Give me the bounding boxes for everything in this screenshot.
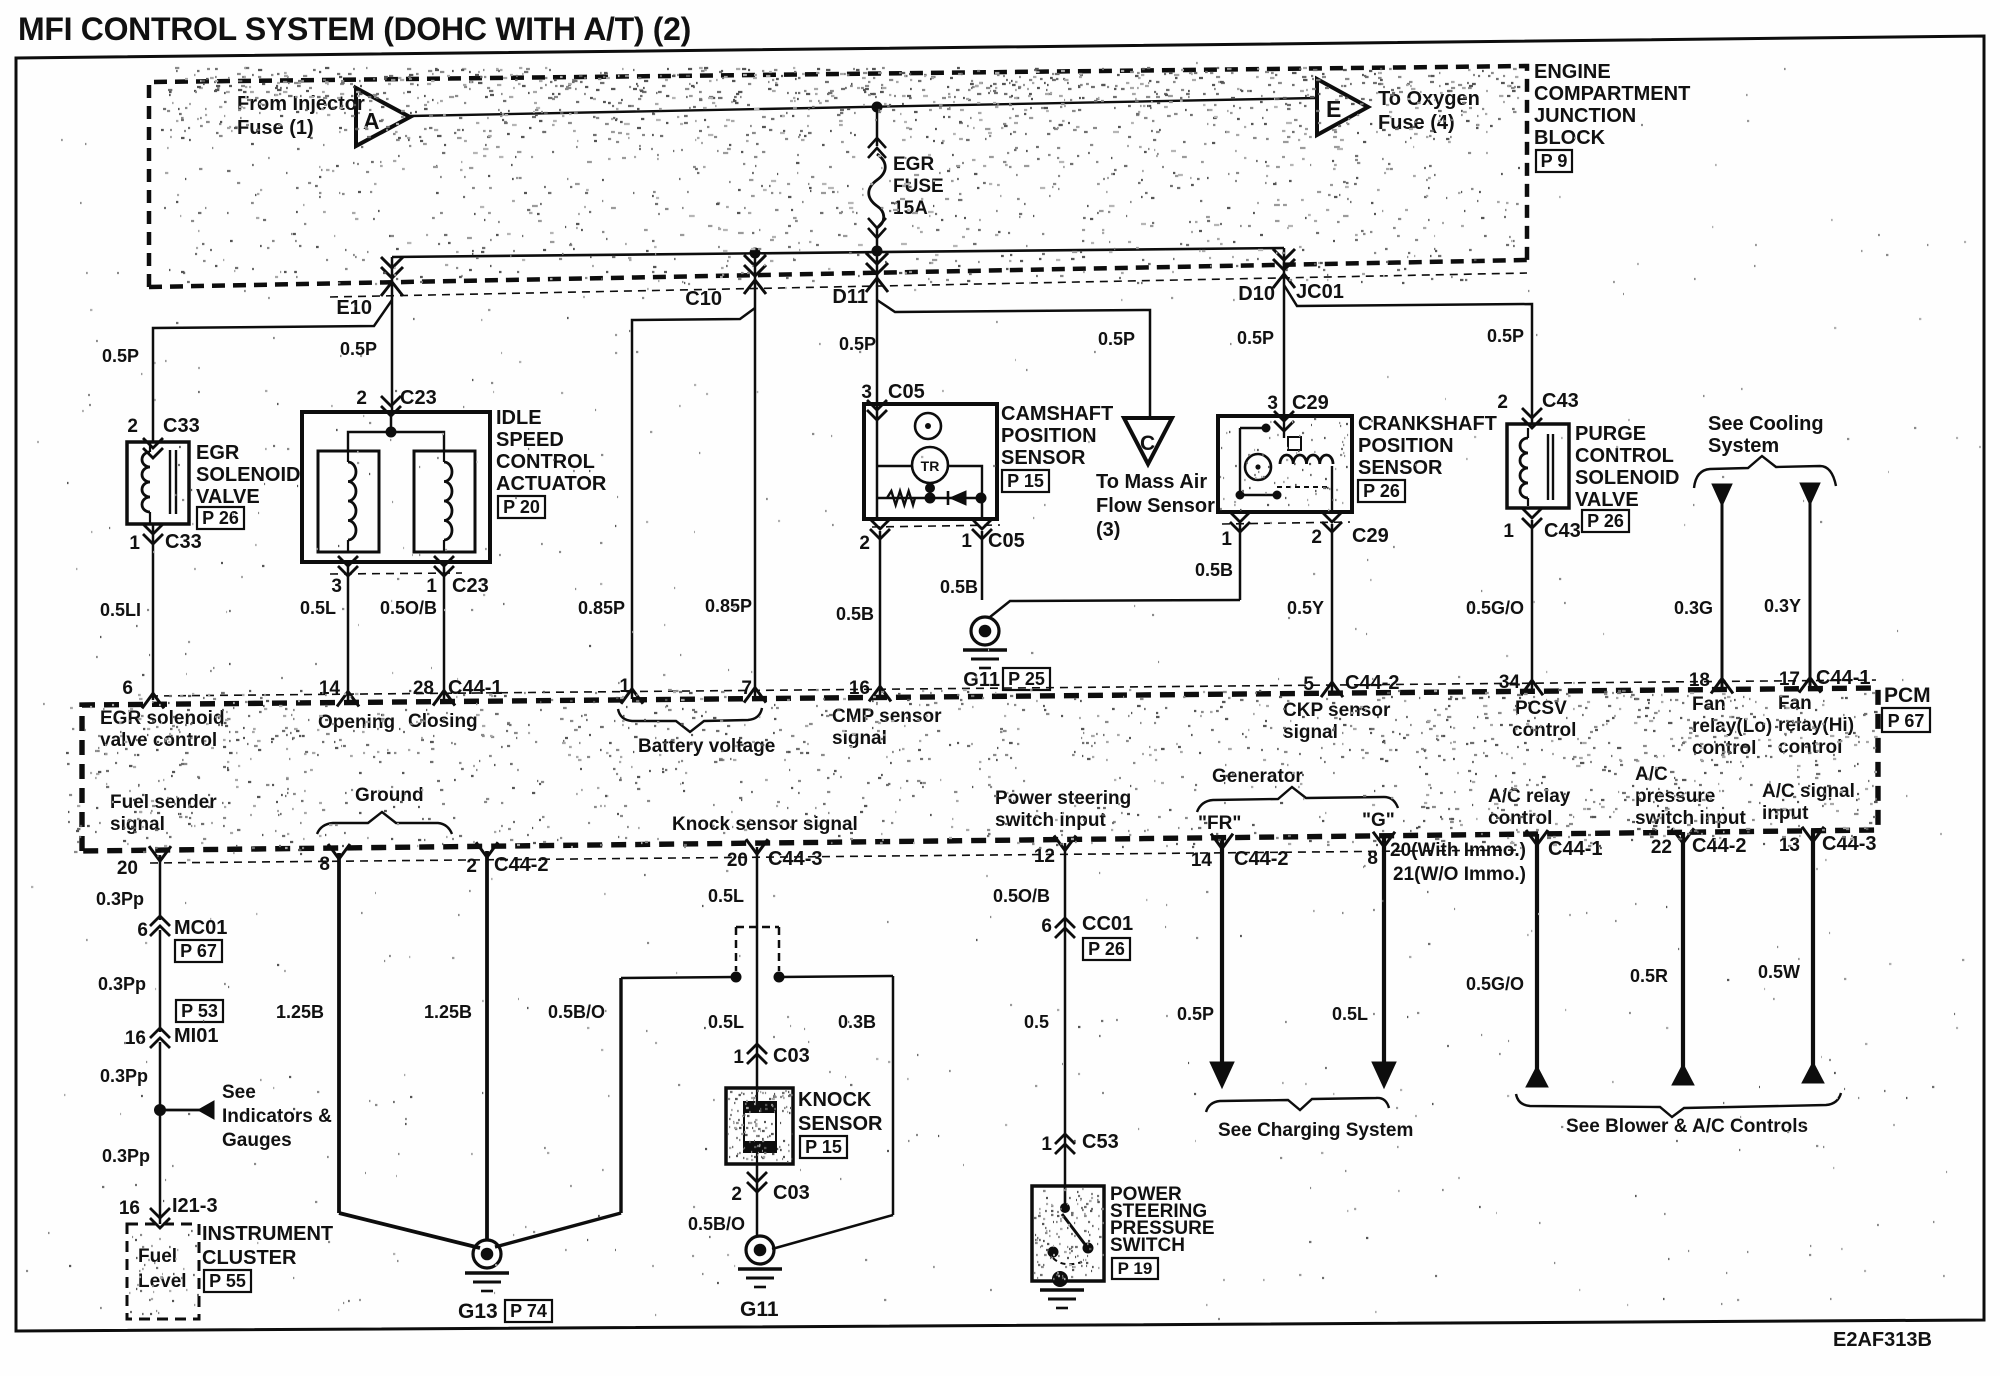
svg-text:0.5P: 0.5P bbox=[1487, 326, 1524, 346]
svg-text:Fan: Fan bbox=[1692, 694, 1726, 715]
svg-text:0.5B: 0.5B bbox=[1195, 560, 1233, 580]
svg-text:G13: G13 bbox=[458, 1300, 498, 1323]
svg-text:P 74: P 74 bbox=[510, 1301, 547, 1321]
svg-text:0.3Y: 0.3Y bbox=[1764, 596, 1801, 616]
svg-text:P 9: P 9 bbox=[1541, 151, 1568, 171]
svg-text:See Blower & A/C Controls: See Blower & A/C Controls bbox=[1566, 1116, 1808, 1137]
svg-text:input: input bbox=[1762, 803, 1809, 824]
svg-text:D11: D11 bbox=[832, 286, 868, 308]
svg-text:C44-3: C44-3 bbox=[1822, 833, 1876, 855]
svg-text:1: 1 bbox=[129, 533, 140, 554]
svg-text:Battery voltage: Battery voltage bbox=[638, 736, 775, 757]
svg-text:PCM: PCM bbox=[1884, 684, 1931, 707]
svg-text:CLUSTER: CLUSTER bbox=[202, 1247, 297, 1269]
svg-text:3: 3 bbox=[331, 576, 342, 597]
svg-text:0.5B/O: 0.5B/O bbox=[688, 1214, 745, 1234]
svg-text:2: 2 bbox=[1311, 527, 1322, 548]
svg-text:1: 1 bbox=[1503, 521, 1514, 542]
svg-text:12: 12 bbox=[1034, 846, 1055, 867]
svg-text:FUSE: FUSE bbox=[893, 176, 944, 197]
svg-text:P 26: P 26 bbox=[202, 508, 239, 528]
svg-text:valve control: valve control bbox=[100, 730, 217, 751]
svg-text:See Charging System: See Charging System bbox=[1218, 1120, 1413, 1141]
svg-text:P 67: P 67 bbox=[1888, 711, 1925, 731]
svg-text:20: 20 bbox=[117, 858, 138, 879]
svg-text:P 26: P 26 bbox=[1363, 481, 1400, 501]
svg-text:COMPARTMENT: COMPARTMENT bbox=[1534, 83, 1690, 105]
svg-text:"G": "G" bbox=[1362, 810, 1395, 831]
svg-text:POSITION: POSITION bbox=[1358, 435, 1454, 457]
svg-text:Knock sensor signal: Knock sensor signal bbox=[672, 814, 858, 835]
svg-text:1: 1 bbox=[1221, 529, 1232, 550]
svg-text:SPEED: SPEED bbox=[496, 429, 564, 451]
svg-text:1.25B: 1.25B bbox=[424, 1002, 472, 1022]
svg-text:POSITION: POSITION bbox=[1001, 425, 1097, 447]
svg-text:1: 1 bbox=[961, 531, 972, 552]
svg-text:0.5L: 0.5L bbox=[300, 598, 336, 618]
svg-text:0.5W: 0.5W bbox=[1758, 962, 1800, 982]
svg-text:0.5L: 0.5L bbox=[708, 1012, 744, 1032]
svg-text:PURGE: PURGE bbox=[1575, 423, 1646, 445]
svg-text:See: See bbox=[222, 1082, 256, 1103]
svg-text:21(W/O Immo.): 21(W/O Immo.) bbox=[1393, 864, 1526, 885]
svg-text:ACTUATOR: ACTUATOR bbox=[496, 473, 607, 495]
svg-text:2: 2 bbox=[859, 533, 870, 554]
svg-text:INSTRUMENT: INSTRUMENT bbox=[202, 1223, 333, 1245]
svg-text:0.85P: 0.85P bbox=[705, 596, 752, 616]
svg-text:C03: C03 bbox=[773, 1182, 810, 1204]
svg-text:C29: C29 bbox=[1292, 392, 1329, 414]
svg-text:C05: C05 bbox=[988, 530, 1025, 552]
svg-text:0.5Y: 0.5Y bbox=[1287, 598, 1324, 618]
svg-text:0.5L: 0.5L bbox=[1332, 1004, 1368, 1024]
svg-text:0.5P: 0.5P bbox=[340, 339, 377, 359]
svg-text:Power steering: Power steering bbox=[995, 788, 1131, 809]
svg-text:P 26: P 26 bbox=[1587, 511, 1624, 531]
svg-text:0.85P: 0.85P bbox=[578, 598, 625, 618]
svg-text:A/C relay: A/C relay bbox=[1488, 786, 1571, 807]
svg-text:To Mass Air: To Mass Air bbox=[1096, 471, 1207, 493]
svg-text:BLOCK: BLOCK bbox=[1534, 127, 1606, 149]
svg-text:C44-3: C44-3 bbox=[768, 848, 822, 870]
svg-text:2: 2 bbox=[1497, 392, 1508, 413]
svg-text:0.3Pp: 0.3Pp bbox=[96, 889, 144, 909]
svg-text:KNOCK: KNOCK bbox=[798, 1089, 872, 1111]
svg-text:CC01: CC01 bbox=[1082, 913, 1133, 935]
svg-text:3: 3 bbox=[861, 382, 872, 403]
svg-text:0.5LI: 0.5LI bbox=[100, 600, 141, 620]
svg-text:16: 16 bbox=[125, 1028, 146, 1049]
svg-text:signal: signal bbox=[1283, 722, 1338, 743]
svg-text:0.3Pp: 0.3Pp bbox=[102, 1146, 150, 1166]
svg-text:E: E bbox=[1326, 96, 1341, 122]
svg-text:2: 2 bbox=[466, 856, 477, 877]
svg-text:TR: TR bbox=[921, 458, 940, 474]
svg-text:E10: E10 bbox=[336, 297, 372, 319]
svg-text:16: 16 bbox=[119, 1198, 140, 1219]
svg-text:SOLENOID: SOLENOID bbox=[196, 464, 300, 486]
svg-text:0.5P: 0.5P bbox=[1237, 328, 1274, 348]
svg-text:MFI CONTROL SYSTEM (DOHC WITH: MFI CONTROL SYSTEM (DOHC WITH A/T) (2) bbox=[18, 11, 691, 47]
svg-text:P 20: P 20 bbox=[503, 497, 540, 517]
svg-text:switch input: switch input bbox=[995, 810, 1107, 831]
svg-text:C33: C33 bbox=[165, 531, 202, 553]
svg-text:control: control bbox=[1778, 737, 1842, 758]
svg-text:P 67: P 67 bbox=[180, 941, 217, 961]
svg-text:P 26: P 26 bbox=[1088, 939, 1125, 959]
svg-text:E2AF313B: E2AF313B bbox=[1833, 1329, 1932, 1351]
svg-text:C44-1: C44-1 bbox=[1548, 838, 1602, 860]
svg-text:PCSV: PCSV bbox=[1515, 698, 1567, 719]
svg-text:I21-3: I21-3 bbox=[172, 1195, 218, 1217]
svg-text:EGR: EGR bbox=[196, 442, 240, 464]
svg-text:See Cooling: See Cooling bbox=[1708, 413, 1824, 435]
svg-text:0.5G/O: 0.5G/O bbox=[1466, 974, 1524, 994]
svg-text:MI01: MI01 bbox=[174, 1025, 218, 1047]
svg-text:Fuel sender: Fuel sender bbox=[110, 792, 217, 813]
svg-text:1: 1 bbox=[1041, 1134, 1052, 1155]
svg-text:CONTROL: CONTROL bbox=[1575, 445, 1674, 467]
svg-text:D10: D10 bbox=[1238, 283, 1275, 305]
svg-text:SENSOR: SENSOR bbox=[1358, 457, 1443, 479]
svg-text:P 53: P 53 bbox=[181, 1001, 218, 1021]
svg-text:0.5B: 0.5B bbox=[836, 604, 874, 624]
svg-text:28: 28 bbox=[413, 678, 434, 699]
svg-text:C29: C29 bbox=[1352, 525, 1389, 547]
svg-text:0.5B/O: 0.5B/O bbox=[548, 1002, 605, 1022]
svg-text:SOLENOID: SOLENOID bbox=[1575, 467, 1679, 489]
svg-text:0.5: 0.5 bbox=[1024, 1012, 1049, 1032]
svg-text:0.3Pp: 0.3Pp bbox=[98, 974, 146, 994]
svg-text:20(With Immo.): 20(With Immo.) bbox=[1390, 840, 1526, 861]
svg-text:SENSOR: SENSOR bbox=[1001, 447, 1086, 469]
svg-text:Fuel: Fuel bbox=[138, 1246, 177, 1267]
svg-text:0.5P: 0.5P bbox=[1098, 329, 1135, 349]
svg-text:0.5P: 0.5P bbox=[839, 334, 876, 354]
svg-text:C53: C53 bbox=[1082, 1131, 1119, 1153]
svg-text:1: 1 bbox=[426, 576, 437, 597]
svg-text:CONTROL: CONTROL bbox=[496, 451, 595, 473]
svg-text:EGR solenoid: EGR solenoid bbox=[100, 708, 225, 729]
svg-text:JC01: JC01 bbox=[1296, 281, 1344, 303]
svg-text:6: 6 bbox=[1041, 916, 1052, 937]
svg-text:relay(Hi): relay(Hi) bbox=[1778, 715, 1854, 736]
svg-text:C44-2: C44-2 bbox=[1234, 848, 1288, 870]
svg-text:2: 2 bbox=[731, 1184, 742, 1205]
svg-text:C23: C23 bbox=[452, 575, 489, 597]
svg-text:P 25: P 25 bbox=[1008, 669, 1045, 689]
svg-text:C10: C10 bbox=[685, 288, 722, 310]
svg-text:System: System bbox=[1708, 435, 1779, 457]
svg-text:2: 2 bbox=[127, 416, 138, 437]
svg-text:0.5G/O: 0.5G/O bbox=[1466, 598, 1524, 618]
svg-text:Flow Sensor: Flow Sensor bbox=[1096, 495, 1215, 517]
svg-text:20: 20 bbox=[727, 850, 748, 871]
svg-text:6: 6 bbox=[137, 920, 148, 941]
svg-text:P 55: P 55 bbox=[209, 1271, 246, 1291]
svg-text:A/C: A/C bbox=[1635, 764, 1668, 785]
svg-text:0.3Pp: 0.3Pp bbox=[100, 1066, 148, 1086]
svg-text:IDLE: IDLE bbox=[496, 407, 542, 429]
svg-text:C03: C03 bbox=[773, 1045, 810, 1067]
svg-text:C05: C05 bbox=[888, 381, 925, 403]
svg-text:8: 8 bbox=[319, 854, 330, 875]
svg-text:C: C bbox=[1140, 432, 1155, 455]
svg-text:Ground: Ground bbox=[355, 785, 424, 806]
svg-text:VALVE: VALVE bbox=[196, 486, 260, 508]
svg-text:0.3G: 0.3G bbox=[1674, 598, 1713, 618]
svg-text:CAMSHAFT: CAMSHAFT bbox=[1001, 403, 1113, 425]
svg-text:3: 3 bbox=[1267, 393, 1278, 414]
svg-text:14: 14 bbox=[1191, 850, 1213, 871]
svg-text:8: 8 bbox=[1367, 848, 1378, 869]
svg-text:G11: G11 bbox=[740, 1298, 779, 1321]
svg-text:relay(Lo): relay(Lo) bbox=[1692, 716, 1772, 737]
svg-text:Fuse (1): Fuse (1) bbox=[237, 117, 314, 139]
svg-text:22: 22 bbox=[1651, 837, 1672, 858]
svg-text:Gauges: Gauges bbox=[222, 1130, 292, 1151]
svg-text:Generator: Generator bbox=[1212, 766, 1303, 787]
svg-text:1.25B: 1.25B bbox=[276, 1002, 324, 1022]
svg-text:(3): (3) bbox=[1096, 519, 1120, 541]
svg-text:0.5B: 0.5B bbox=[940, 577, 978, 597]
svg-text:SENSOR: SENSOR bbox=[798, 1113, 883, 1135]
svg-text:signal: signal bbox=[110, 814, 165, 835]
svg-text:ENGINE: ENGINE bbox=[1534, 61, 1611, 83]
svg-text:VALVE: VALVE bbox=[1575, 489, 1639, 511]
svg-text:1: 1 bbox=[733, 1047, 744, 1068]
svg-text:EGR: EGR bbox=[893, 154, 934, 175]
svg-text:0.3B: 0.3B bbox=[838, 1012, 876, 1032]
svg-text:15A: 15A bbox=[893, 198, 928, 219]
svg-text:0.5R: 0.5R bbox=[1630, 966, 1668, 986]
svg-text:Closing: Closing bbox=[408, 711, 478, 732]
svg-text:C33: C33 bbox=[163, 415, 200, 437]
svg-text:P 15: P 15 bbox=[1007, 471, 1044, 491]
svg-text:P 15: P 15 bbox=[805, 1137, 842, 1157]
svg-text:MC01: MC01 bbox=[174, 917, 227, 939]
svg-text:C44-2: C44-2 bbox=[494, 854, 548, 876]
svg-text:control: control bbox=[1512, 720, 1576, 741]
svg-text:2: 2 bbox=[356, 388, 367, 409]
svg-text:CRANKSHAFT: CRANKSHAFT bbox=[1358, 413, 1497, 435]
svg-text:P 19: P 19 bbox=[1118, 1259, 1153, 1278]
svg-text:JUNCTION: JUNCTION bbox=[1534, 105, 1636, 127]
svg-text:C43: C43 bbox=[1544, 520, 1581, 542]
svg-text:6: 6 bbox=[122, 678, 133, 699]
svg-text:Fan: Fan bbox=[1778, 693, 1812, 714]
svg-text:C23: C23 bbox=[400, 387, 437, 409]
svg-text:0.5O/B: 0.5O/B bbox=[380, 598, 437, 618]
svg-text:0.5P: 0.5P bbox=[102, 346, 139, 366]
svg-text:0.5P: 0.5P bbox=[1177, 1004, 1214, 1024]
svg-text:Indicators &: Indicators & bbox=[222, 1106, 332, 1127]
svg-text:14: 14 bbox=[319, 678, 341, 699]
svg-text:0.5O/B: 0.5O/B bbox=[993, 886, 1050, 906]
svg-text:SWITCH: SWITCH bbox=[1110, 1235, 1185, 1256]
svg-text:0.5L: 0.5L bbox=[708, 886, 744, 906]
svg-text:C43: C43 bbox=[1542, 390, 1579, 412]
